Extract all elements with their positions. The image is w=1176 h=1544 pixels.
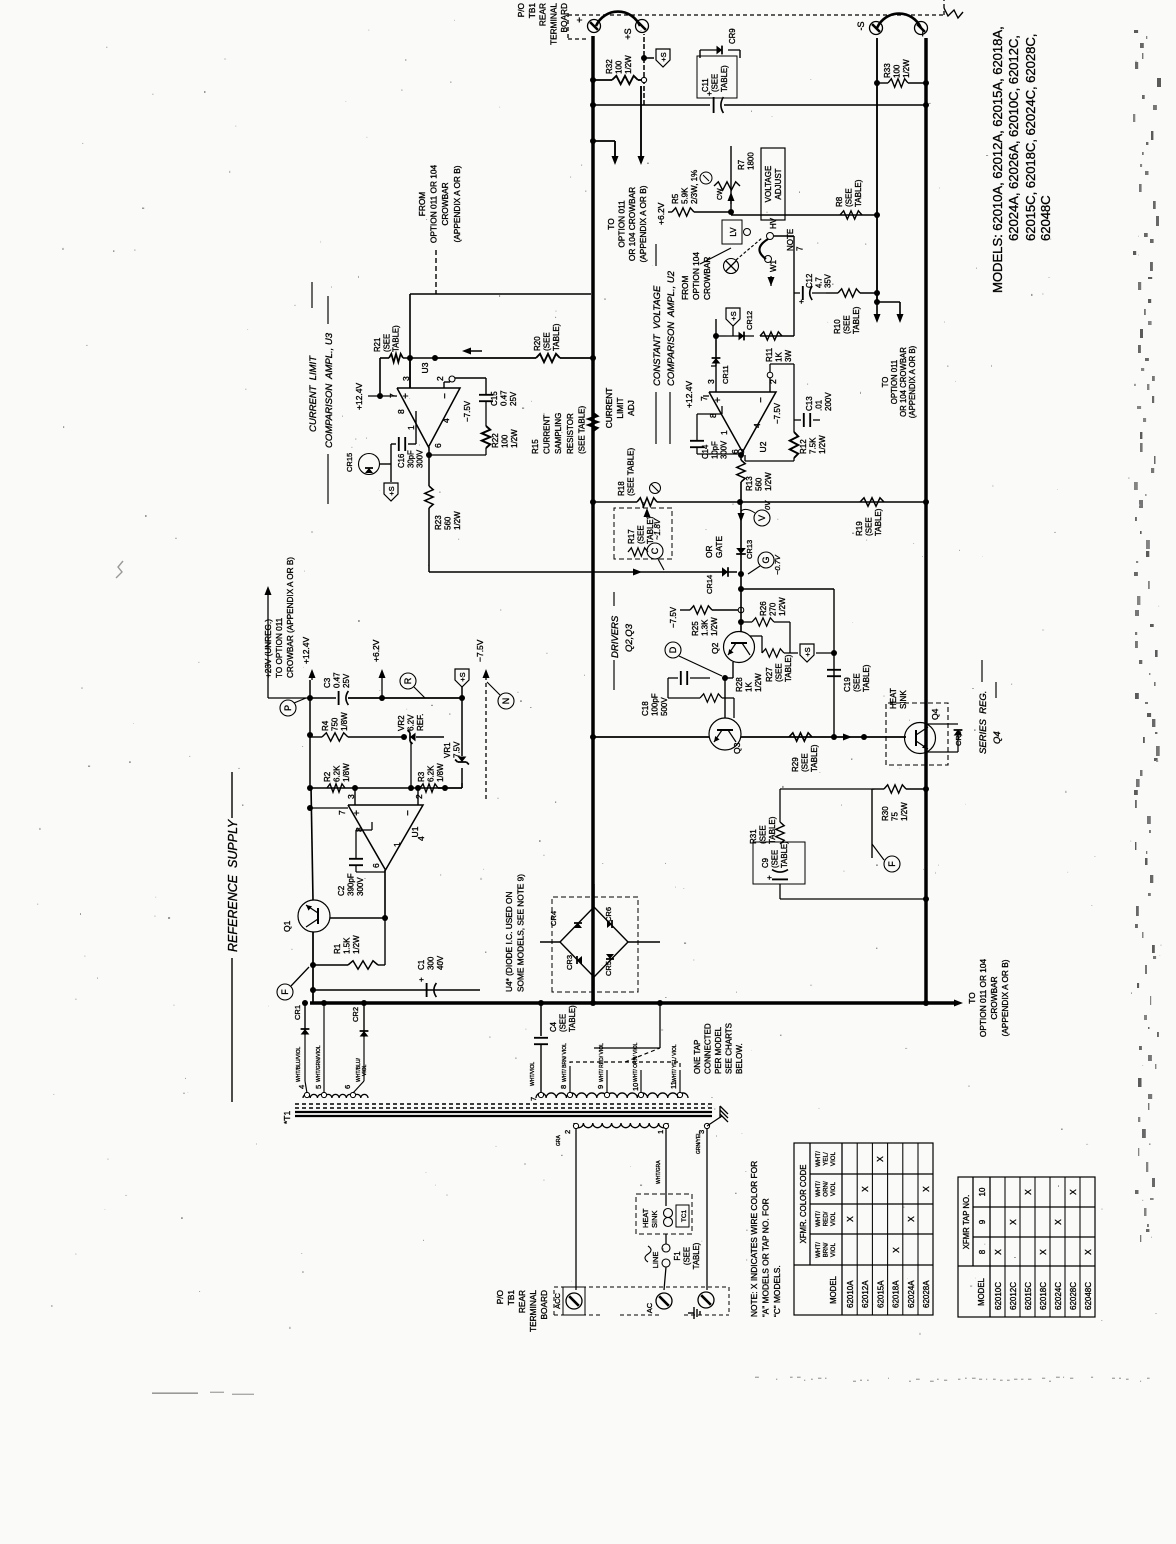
svg-text:VR2: VR2: [397, 715, 406, 731]
svg-text:R3: R3: [417, 771, 426, 782]
capacitor C19 in that wire: [827, 675, 841, 677]
svg-text:OPTION 011: OPTION 011: [617, 200, 627, 248]
svg-text:500V: 500V: [660, 697, 669, 716]
svg-text:U2: U2: [758, 441, 768, 452]
capacitor C2 feedback: [371, 822, 373, 830]
circled N: [498, 693, 514, 709]
resistor R26: [744, 621, 752, 623]
svg-text:+S: +S: [659, 52, 668, 61]
svg-text:ONE TAP: ONE TAP: [693, 1040, 702, 1074]
svg-text:CR9: CR9: [728, 28, 737, 44]
svg-text:WHT/ BRN/ VIOL: WHT/ BRN/ VIOL: [562, 1043, 568, 1082]
svg-text:25V: 25V: [509, 391, 518, 406]
pot R18: [593, 501, 637, 503]
capacitor C4: [534, 1043, 548, 1045]
svg-text:−: −: [440, 393, 451, 399]
svg-text:*T1: *T1: [282, 1111, 292, 1125]
capacitor C15: [479, 400, 493, 402]
svg-text:CURRENT: CURRENT: [543, 415, 552, 454]
svg-text:CROWBAR: CROWBAR: [989, 976, 999, 1019]
svg-text:RESISTOR: RESISTOR: [566, 413, 575, 454]
svg-text:3W: 3W: [784, 350, 793, 362]
circled D: [665, 642, 681, 658]
svg-text:10pF: 10pF: [710, 441, 719, 459]
svg-text:ADJ: ADJ: [626, 400, 636, 416]
svg-text:+: +: [765, 875, 774, 880]
circled P: [280, 700, 296, 716]
svg-text:P/O: P/O: [516, 2, 526, 17]
svg-text:REF.: REF.: [416, 714, 425, 731]
circled C with -1.8V: [647, 543, 663, 559]
svg-text:2: 2: [414, 794, 424, 799]
svg-text:4: 4: [752, 423, 762, 428]
svg-text:X: X: [875, 1156, 885, 1162]
resistor R13: [737, 460, 745, 482]
svg-text:100: 100: [615, 60, 624, 74]
svg-text:6.2K: 6.2K: [333, 765, 342, 782]
wire raw DC bus (F) vertical: [310, 1001, 958, 1004]
flag +S near CR12: [726, 308, 740, 326]
resistor R1: [313, 964, 348, 966]
wire Q1 collector: [311, 786, 313, 900]
svg-text:1: 1: [392, 842, 402, 847]
svg-text:XFMR. COLOR CODE: XFMR. COLOR CODE: [799, 1165, 808, 1244]
wire OR node branch down: [741, 588, 834, 590]
svg-text:(SEE: (SEE: [801, 753, 810, 772]
svg-text:(SEE: (SEE: [770, 850, 779, 868]
svg-text:VOLTAGE: VOLTAGE: [764, 166, 773, 203]
svg-text:(SEE: (SEE: [853, 673, 862, 692]
paper edge squiggle: [944, 8, 963, 18]
svg-text:TABLE): TABLE): [810, 744, 819, 772]
svg-text:CR15: CR15: [345, 453, 354, 472]
svg-text:BOARD: BOARD: [539, 1290, 549, 1320]
svg-text:WHT/GRA: WHT/GRA: [656, 1160, 662, 1184]
svg-text:Q2,Q3: Q2,Q3: [624, 623, 635, 652]
svg-text:1.3K: 1.3K: [701, 619, 710, 636]
svg-text:−7.5V: −7.5V: [669, 606, 678, 628]
svg-text:7: 7: [529, 1097, 538, 1101]
resistor R2: [327, 784, 345, 792]
svg-text:7.5V: 7.5V: [453, 741, 462, 758]
svg-text:+S: +S: [803, 647, 812, 656]
wire U2 feedback R12: [769, 364, 771, 372]
svg-text:WHT/GRN/VIOL: WHT/GRN/VIOL: [316, 1045, 322, 1082]
svg-text:X: X: [1038, 1249, 1048, 1255]
svg-text:−: −: [756, 397, 767, 403]
OR node: [738, 571, 744, 577]
circled V with 0V: [754, 510, 770, 526]
svg-text:+S: +S: [387, 486, 396, 495]
svg-text:C: C: [650, 547, 660, 554]
svg-text:R4: R4: [321, 720, 330, 731]
svg-text:TO: TO: [967, 992, 977, 1004]
svg-text:62024A, 62026A, 62010C, 62012C: 62024A, 62026A, 62010C, 62012C,: [1006, 35, 1021, 241]
svg-text:(SEE: (SEE: [558, 1014, 567, 1032]
diode CR8: [926, 751, 958, 753]
flag +S near CR15: [384, 483, 398, 501]
svg-text:CR5: CR5: [604, 961, 613, 976]
diode CR12: [726, 335, 754, 337]
svg-text:1/2W: 1/2W: [902, 59, 911, 78]
wire ref bottom to -7.5 dashed: [479, 799, 481, 986]
circled F (output side): [884, 856, 900, 872]
diode CR13: [736, 548, 746, 554]
svg-text:F: F: [887, 861, 897, 867]
svg-text:OR: OR: [704, 546, 714, 558]
svg-text:ORN/: ORN/: [822, 1181, 829, 1197]
svg-text:ADJUST: ADJUST: [774, 168, 783, 199]
svg-text:(SEE: (SEE: [382, 334, 391, 352]
svg-text:R: R: [403, 677, 413, 684]
svg-text:C19: C19: [843, 677, 852, 692]
svg-text:9: 9: [596, 1085, 605, 1089]
svg-text:−: −: [403, 810, 414, 816]
svg-text:62048C: 62048C: [1084, 1282, 1093, 1310]
output jumper arc + to +S: [596, 12, 640, 26]
wire R8 drop: [731, 214, 877, 216]
svg-text:CR6: CR6: [604, 907, 613, 922]
svg-text:W1: W1: [769, 259, 778, 272]
svg-text:Q1: Q1: [282, 920, 292, 932]
svg-text:1: 1: [719, 430, 729, 435]
resistor R20: [435, 357, 536, 359]
svg-text:~1.8V: ~1.8V: [653, 518, 662, 540]
svg-text:5.9K: 5.9K: [681, 187, 690, 204]
svg-text:R15: R15: [531, 439, 540, 454]
svg-text:R22: R22: [491, 433, 500, 448]
svg-text:DRIVERS: DRIVERS: [610, 615, 621, 658]
svg-text:6.2V: 6.2V: [407, 714, 416, 731]
svg-text:REAR: REAR: [538, 3, 548, 26]
svg-text:2: 2: [435, 376, 445, 381]
svg-text:62012A: 62012A: [861, 1280, 870, 1308]
svg-text:7: 7: [337, 810, 347, 815]
circled R: [400, 673, 416, 689]
svg-text:62018C: 62018C: [1039, 1282, 1048, 1310]
svg-text:G: G: [761, 556, 771, 563]
svg-text:C9: C9: [761, 858, 770, 868]
wire +S flag stub: [816, 652, 834, 654]
wire primary tap2 to ACC: [575, 1128, 577, 1290]
svg-text:REAR: REAR: [517, 1290, 527, 1313]
svg-text:TABLE): TABLE): [854, 179, 863, 207]
resistor R21: [379, 358, 381, 396]
svg-text:R23: R23: [434, 515, 443, 530]
svg-text:WHT/ YEL/ VIOL: WHT/ YEL/ VIOL: [672, 1044, 678, 1082]
svg-text:(APPENDIX A OR B): (APPENDIX A OR B): [1000, 959, 1010, 1036]
svg-text:CR14: CR14: [705, 575, 714, 594]
svg-text:BELOW.: BELOW.: [735, 1043, 744, 1074]
terminal board dashed boundary: [568, 14, 944, 16]
svg-text:100: 100: [501, 434, 510, 448]
svg-text:CR11: CR11: [721, 365, 730, 384]
lamp symbol (circle-X): [724, 259, 739, 274]
svg-text:R8: R8: [835, 196, 844, 207]
wire U1 pin2: [417, 788, 419, 805]
svg-text:40V: 40V: [436, 955, 445, 970]
svg-text:D: D: [668, 646, 678, 653]
svg-text:GATE: GATE: [714, 536, 724, 558]
wire tap4 to CR1: [305, 1081, 307, 1093]
svg-text:MODEL: MODEL: [829, 1275, 838, 1303]
svg-text:(SEE: (SEE: [759, 825, 768, 844]
svg-text:560: 560: [755, 477, 764, 491]
ACC terminal screw: [566, 1293, 582, 1309]
svg-text:R30: R30: [881, 806, 890, 821]
wire tap5: [323, 1003, 325, 1093]
svg-text:62015A: 62015A: [876, 1280, 885, 1308]
svg-text:TO: TO: [606, 218, 616, 230]
wire +23V from P node: [267, 592, 269, 698]
svg-text:COMPARISON AMPL., U3: COMPARISON AMPL., U3: [324, 332, 335, 448]
capacitor C16: [415, 411, 417, 444]
svg-text:200V: 200V: [824, 392, 833, 411]
svg-text:AC: AC: [645, 1302, 654, 1313]
svg-text:4: 4: [416, 836, 426, 841]
bridge dashed box: [552, 897, 638, 992]
transistor Q4: [905, 723, 936, 754]
diode CR1: [304, 1003, 306, 1035]
svg-text:7: 7: [699, 396, 709, 401]
svg-text:300: 300: [427, 956, 436, 970]
svg-text:(SEE: (SEE: [637, 525, 646, 544]
svg-text:TB1: TB1: [506, 1290, 516, 1306]
VOLTAGE ADJUST box: [761, 148, 785, 220]
wire U2 pin2: [769, 378, 771, 392]
svg-text:9: 9: [978, 1219, 987, 1224]
svg-text:HEAT: HEAT: [889, 688, 898, 709]
svg-text:“C” MODELS.: “C” MODELS.: [772, 1265, 782, 1317]
svg-text:1/2W: 1/2W: [764, 472, 773, 491]
svg-text:62010C: 62010C: [994, 1282, 1003, 1310]
svg-text:SINK: SINK: [650, 1210, 659, 1228]
zener VR2: [410, 733, 416, 742]
svg-text:R11: R11: [765, 347, 774, 362]
svg-text:62024C: 62024C: [1054, 1282, 1063, 1310]
svg-text:CROWBAR (APPENDIX A OR B): CROWBAR (APPENDIX A OR B): [286, 557, 295, 678]
flag +S ref: [455, 669, 469, 687]
svg-text:TABLE): TABLE): [568, 1005, 577, 1032]
op-amp U1: [348, 805, 423, 870]
svg-text:(APPENDIX A OR B): (APPENDIX A OR B): [638, 185, 648, 262]
svg-text:0V: 0V: [763, 500, 772, 510]
output jumper arc - to -S: [877, 14, 921, 28]
svg-text:X: X: [1083, 1249, 1093, 1255]
svg-text:300V: 300V: [416, 449, 425, 468]
svg-text:1.5K: 1.5K: [343, 937, 352, 954]
zener VR1: [461, 768, 463, 783]
slashed circle symbol: [650, 483, 661, 494]
svg-text:−: −: [918, 31, 929, 37]
transistor Q3: [709, 718, 741, 750]
svg-text:+S: +S: [729, 311, 738, 320]
svg-text:SERIES REG.: SERIES REG.: [978, 691, 989, 754]
wire crowbar arrows mid right: [874, 299, 880, 305]
svg-text:R25: R25: [691, 621, 700, 636]
svg-text:TABLE): TABLE): [692, 1242, 701, 1269]
svg-text:+12.4V: +12.4V: [684, 380, 694, 408]
svg-text:1/8W: 1/8W: [340, 712, 349, 731]
wire ref row2: [310, 787, 445, 789]
svg-text:REFERENCE SUPPLY: REFERENCE SUPPLY: [226, 818, 240, 952]
capacitor C13: [794, 419, 801, 421]
svg-text:1: 1: [406, 425, 416, 430]
svg-text:CURRENT: CURRENT: [604, 388, 614, 429]
resistor R10: [826, 292, 838, 294]
svg-text:VIOL: VIOL: [830, 1211, 837, 1226]
terminal +S screw: [636, 20, 649, 33]
input terminal board dashed box: [554, 1287, 729, 1315]
resistor R19: [737, 499, 743, 505]
arrow to option crowbar: [954, 1000, 963, 1007]
svg-text:3: 3: [706, 379, 716, 384]
svg-text:30pF: 30pF: [406, 450, 415, 468]
svg-text:6: 6: [433, 443, 443, 448]
svg-text:TABLE): TABLE): [852, 306, 861, 334]
wire primary tap3 to gnd screw: [706, 1128, 708, 1290]
svg-text:0.47: 0.47: [500, 390, 509, 406]
svg-text:OPTION 104: OPTION 104: [691, 252, 701, 300]
svg-text:R32: R32: [605, 59, 614, 74]
node circle at R25: [738, 607, 744, 613]
heat sink TC1 box: [636, 1194, 692, 1234]
svg-text:R18: R18: [617, 481, 626, 496]
wire U2 output: [738, 452, 744, 458]
svg-text:(APPENDIX A OR B): (APPENDIX A OR B): [452, 165, 462, 242]
one-tap dashed leads 8-11: [569, 1070, 571, 1093]
page speckles: [53, 1094, 54, 1095]
faint speckle line: [755, 1377, 759, 1378]
svg-text:+S: +S: [458, 672, 467, 681]
thermal cutout TC1: [664, 1218, 673, 1227]
svg-text:1K: 1K: [745, 682, 754, 692]
wire U2 output to OR node: [740, 509, 742, 574]
svg-text:1K: 1K: [775, 352, 784, 362]
svg-text:X: X: [891, 1247, 901, 1253]
svg-text:.01: .01: [815, 399, 824, 411]
resistor R28: [668, 697, 700, 699]
resistor R31: [780, 788, 872, 790]
diode CR9: [700, 49, 717, 51]
op-amp U2: [709, 392, 776, 452]
svg-text:270: 270: [769, 602, 778, 616]
svg-text:ACC: ACC: [553, 1293, 562, 1309]
svg-text:R19: R19: [855, 521, 864, 536]
resistor R4: [322, 733, 348, 741]
svg-text:TO: TO: [881, 377, 890, 388]
svg-text:X: X: [1053, 1219, 1063, 1225]
wire U3 pin3: [409, 358, 411, 388]
wire U3 output: [428, 447, 430, 455]
svg-text:X: X: [921, 1186, 931, 1192]
svg-text:VIOL: VIOL: [362, 1064, 368, 1076]
svg-text:BRN/: BRN/: [822, 1242, 829, 1257]
svg-text:HV: HV: [769, 217, 778, 229]
svg-text:RED/: RED/: [822, 1211, 829, 1226]
svg-text:5: 5: [314, 1085, 323, 1089]
svg-text:R28: R28: [735, 677, 744, 692]
op-amp U3: [397, 388, 460, 447]
svg-text:GRN/YEL: GRN/YEL: [696, 1132, 702, 1154]
svg-text:R26: R26: [759, 601, 768, 616]
svg-text:TABLE): TABLE): [392, 325, 401, 352]
wire Q2 emitter to Q3 base: [732, 662, 734, 678]
svg-text:(SEE TABLE): (SEE TABLE): [627, 448, 636, 497]
svg-text:−0.7V: −0.7V: [773, 554, 782, 575]
svg-text:750: 750: [331, 717, 340, 731]
svg-text:CURRENT LIMIT: CURRENT LIMIT: [308, 355, 319, 432]
svg-text:C1: C1: [417, 959, 426, 970]
svg-text:8: 8: [559, 1085, 568, 1089]
svg-text:CONNECTED: CONNECTED: [704, 1023, 713, 1074]
wire C11 branch: [593, 104, 710, 106]
svg-text:CROWBAR: CROWBAR: [440, 182, 450, 225]
wire primary tap1 to fuse: [665, 1128, 667, 1206]
wire C1 branch: [313, 989, 480, 991]
svg-text:Q2: Q2: [710, 642, 720, 654]
svg-text:WHT/: WHT/: [815, 1242, 822, 1258]
wire U1 output to Q1 base: [384, 870, 386, 918]
svg-text:4.7: 4.7: [814, 277, 823, 288]
svg-text:R13: R13: [745, 476, 754, 491]
svg-text:−7.5V: −7.5V: [773, 402, 782, 424]
svg-text:OR 104 CROWBAR: OR 104 CROWBAR: [899, 347, 908, 417]
wire F node: [871, 789, 873, 858]
svg-text:OPTION 011 OR 104: OPTION 011 OR 104: [978, 959, 988, 1038]
svg-text:(SEE: (SEE: [682, 1247, 691, 1265]
svg-text:1/2W: 1/2W: [352, 935, 361, 954]
AC terminal screw: [656, 1293, 672, 1309]
svg-text:7.5K: 7.5K: [809, 437, 818, 454]
wire current-limit line (C): [428, 569, 430, 572]
svg-text:C4: C4: [549, 1021, 558, 1032]
resistor R5: [668, 211, 672, 213]
svg-text:C2: C2: [337, 885, 346, 896]
svg-text:1800: 1800: [747, 152, 756, 170]
capacitor C14 feedback: [721, 406, 723, 414]
svg-text:Q4: Q4: [930, 708, 940, 720]
scan noise band: [1140, 1235, 1141, 1242]
wire U2 pin3 input: [715, 319, 717, 392]
svg-text:C3: C3: [323, 677, 332, 688]
svg-text:4: 4: [297, 1085, 306, 1089]
capacitor C12: [794, 292, 800, 294]
svg-text:+: +: [352, 810, 363, 816]
svg-text:6: 6: [343, 1085, 352, 1089]
svg-text:OR 104 CROWBAR: OR 104 CROWBAR: [627, 187, 637, 261]
resistor R29 on drop: [789, 733, 812, 741]
svg-text:300V: 300V: [720, 440, 729, 459]
svg-text:300V: 300V: [356, 877, 365, 896]
svg-text:1/2W: 1/2W: [818, 435, 827, 454]
resistor R27: [750, 635, 762, 637]
svg-text:(APPENDIX A OR B): (APPENDIX A OR B): [908, 345, 917, 418]
svg-text:“A” MODELS OR TAP NO. FOR: “A” MODELS OR TAP NO. FOR: [761, 1198, 771, 1317]
wire pin3 loop over to rail: [409, 294, 411, 358]
resistor R11: [760, 335, 794, 337]
svg-text:SAMPLING: SAMPLING: [554, 413, 563, 454]
svg-text:+12.4V: +12.4V: [301, 636, 311, 664]
svg-text:(SEE: (SEE: [543, 332, 552, 351]
svg-text:8: 8: [978, 1249, 987, 1254]
resistor R22: [482, 426, 490, 448]
svg-text:C15: C15: [490, 391, 499, 406]
wire Q1 emitter rail to F bus: [312, 932, 314, 1003]
svg-text:LV: LV: [729, 227, 738, 237]
svg-text:WHT/: WHT/: [815, 1181, 822, 1197]
svg-text:CR1: CR1: [293, 1005, 302, 1020]
